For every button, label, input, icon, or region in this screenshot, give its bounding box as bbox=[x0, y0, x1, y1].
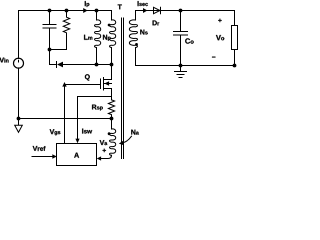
label Vo minus bbox=[212, 56, 215, 59]
ground: secondary (earth) bbox=[175, 66, 187, 78]
winding Na wire top bbox=[111, 119, 113, 130]
winding Np (primary) bbox=[110, 20, 116, 48]
winding Na (auxiliary) bbox=[110, 129, 116, 155]
inductor Lm wire top bbox=[96, 11, 98, 21]
wire: load bottom wire bbox=[234, 50, 236, 66]
capacitor Csn (clamp) bbox=[43, 11, 56, 50]
inductor Lm bbox=[95, 20, 101, 48]
resistor Rsp bbox=[108, 100, 114, 119]
diode Dr (output rectifier) bbox=[154, 7, 161, 13]
node: clamp bottom junction bbox=[48, 48, 52, 52]
label Dr bbox=[153, 20, 160, 25]
wire: primary top rail bbox=[19, 11, 112, 21]
label A bbox=[74, 153, 79, 158]
arrow: Ip current arrow bbox=[83, 8, 87, 13]
source Vin bbox=[14, 58, 24, 68]
label Va plus bbox=[103, 149, 106, 152]
label Va bbox=[100, 140, 108, 145]
node: rail tap of Rsn bbox=[65, 9, 69, 13]
node: Co top junction bbox=[179, 9, 183, 13]
block A (controller) bbox=[57, 144, 97, 166]
label Vo bbox=[216, 35, 224, 40]
label Lm bbox=[84, 35, 92, 40]
arrow: Vref arrowhead bbox=[52, 154, 57, 158]
leader arrow to Na winding bbox=[122, 136, 132, 143]
label Vo plus bbox=[218, 19, 221, 22]
winding Ns (secondary) bbox=[129, 20, 137, 48]
diode Dsn bar (cathode left) bbox=[56, 62, 58, 68]
wire: Vgs gate drive bbox=[64, 87, 66, 144]
arrow: Isw into block A bbox=[75, 139, 79, 144]
label Isw bbox=[82, 129, 92, 134]
label Vref bbox=[33, 146, 46, 151]
wire: drain bus bbox=[63, 64, 112, 66]
label Isec bbox=[138, 1, 148, 6]
leader arrowhead to Na winding bbox=[119, 141, 124, 146]
wire: secondary top rail bbox=[136, 11, 235, 26]
label Vin bbox=[0, 58, 9, 63]
wire: primary bottom rail bbox=[19, 118, 112, 120]
node: load bottom junction bbox=[233, 64, 237, 68]
wire: MOSFET source bbox=[111, 89, 113, 100]
wire: secondary bottom rail bbox=[136, 48, 235, 66]
label Vgs bbox=[50, 129, 61, 135]
wire: Isw sense tap bbox=[78, 97, 112, 139]
load resistor RL bbox=[232, 26, 238, 50]
node: primary ground junction bbox=[17, 117, 21, 121]
resistor Rsn (clamp) bbox=[50, 11, 70, 50]
node: Lm bottom junction bbox=[95, 63, 99, 67]
capacitor Co bbox=[174, 11, 188, 66]
node: rail tap of Csn bbox=[48, 9, 52, 13]
label Np bbox=[103, 35, 111, 41]
node: Lm top tap bbox=[95, 9, 99, 13]
label Na bbox=[131, 130, 139, 135]
label Co bbox=[185, 38, 193, 43]
arrow: Vref line into block A bbox=[32, 156, 53, 158]
wire: left input wire top bbox=[18, 11, 20, 63]
node: Na polarity dot bbox=[108, 132, 111, 135]
transformer core bbox=[122, 18, 124, 159]
ground: primary (open triangle) bbox=[15, 119, 23, 133]
diode Dsn body bbox=[57, 62, 63, 68]
node: aux winding top junction bbox=[110, 117, 114, 121]
label Rsp bbox=[92, 105, 103, 111]
winding Na wire bottom hook bbox=[101, 155, 112, 158]
node: Ns polarity dot bbox=[135, 43, 138, 46]
label Ip bbox=[85, 1, 90, 7]
arrow: Va into block A bbox=[97, 156, 101, 160]
label T (transformer) bbox=[118, 4, 122, 9]
wire: clamp down wire bbox=[50, 50, 57, 65]
label Q bbox=[85, 74, 90, 80]
wire: MOSFET drain bbox=[111, 65, 113, 80]
node: Co bottom junction bbox=[179, 64, 183, 68]
inductor Lm wire bottom bbox=[96, 48, 98, 65]
transistor Q body arrow bbox=[104, 81, 109, 85]
label Ns bbox=[140, 30, 147, 35]
arrow: Isec current arrow bbox=[143, 8, 147, 13]
wire: left input wire bottom bbox=[18, 68, 20, 119]
arrow: Vgs up arrow at gate wire bbox=[62, 82, 66, 87]
node: drain junction bbox=[110, 63, 114, 67]
winding Np wire bottom bbox=[111, 48, 113, 65]
node: Np polarity dot bbox=[108, 24, 111, 27]
transistor Q (N-MOSFET) bbox=[65, 78, 112, 91]
